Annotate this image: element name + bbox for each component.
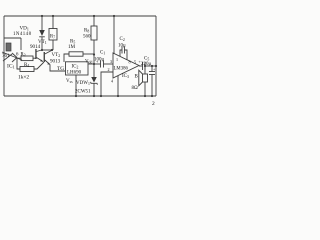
junction ground zener [93, 95, 95, 97]
svg-text:R8: R8 [84, 29, 89, 34]
wire left frame [3, 16, 5, 96]
junction ground Vss [75, 95, 77, 97]
svg-text:3: 3 [110, 59, 112, 64]
junction R5 R8 [93, 53, 95, 55]
svg-text:100μ: 100μ [94, 58, 105, 63]
wire IC1 output down to R4 [17, 58, 20, 69]
svg-text:R4: R4 [24, 63, 29, 68]
wire IC2 Vss to ground [75, 75, 77, 96]
svg-text:R7: R7 [50, 35, 55, 40]
svg-text:LM386: LM386 [114, 66, 129, 71]
wire supply node down [93, 54, 95, 64]
zener diode VDW1 [91, 64, 98, 96]
svg-text:9013: 9013 [50, 58, 61, 64]
junction top rail at VD1 [41, 15, 43, 17]
wire right frame [155, 16, 157, 96]
junction top rail at R7 [52, 15, 54, 17]
sensor IC1 amp apex [12, 53, 17, 62]
resistor R8 [91, 16, 97, 54]
svg-text:560: 560 [83, 35, 91, 40]
svg-text:TG: TG [57, 66, 64, 72]
wire R4 to VT2 [34, 62, 44, 69]
svg-text:VDW1: VDW1 [76, 81, 90, 86]
junction ground pin4 [117, 95, 119, 97]
svg-text:VT2: VT2 [52, 52, 61, 58]
IC2 music chip box [66, 62, 89, 75]
sensor IC1 light arrow [3, 54, 12, 61]
svg-text:9014: 9014 [30, 44, 41, 50]
wire bottom ground rail [4, 95, 156, 97]
sensor IC1 slant lead [2, 52, 22, 60]
junction top rail at R8 [93, 15, 95, 17]
svg-text:C1: C1 [100, 51, 105, 56]
svg-text:LH690: LH690 [67, 71, 82, 76]
junction R7 bottom [51, 49, 53, 51]
wire collector node [41, 49, 52, 51]
junction speaker tap [144, 65, 146, 67]
junction ground pin2 [100, 95, 102, 97]
svg-text:1k×2: 1k×2 [18, 75, 29, 81]
junction top rail at pin6 [113, 15, 115, 17]
speaker B [139, 66, 148, 96]
svg-text:10μ: 10μ [118, 44, 126, 49]
svg-text:IC3: IC3 [122, 74, 129, 79]
resistor R7 [49, 16, 57, 50]
capacitor C1 [94, 59, 113, 68]
diode VD1 [39, 16, 45, 50]
wire top supply rail [4, 15, 156, 17]
resistor R4 [20, 67, 34, 72]
sensor IC1 envelope box [4, 38, 21, 50]
svg-text:220μ: 220μ [141, 62, 152, 67]
junction output node [93, 63, 95, 65]
wire R3 to VT1 base [33, 57, 36, 59]
svg-text:2CW51: 2CW51 [75, 90, 91, 95]
junction ground speaker [144, 95, 146, 97]
wire pin4 to ground [117, 76, 119, 96]
svg-text:1N4148: 1N4148 [13, 32, 32, 37]
svg-text:6: 6 [16, 53, 19, 58]
svg-text:R3: R3 [21, 53, 26, 58]
svg-text:8: 8 [129, 60, 131, 65]
capacitor C6 [149, 66, 156, 96]
svg-text:VD1: VD1 [20, 26, 29, 32]
junction ground C6 [151, 95, 153, 97]
junction VD1 bottom [41, 49, 43, 51]
wire pin6 supply [113, 16, 115, 54]
svg-text:1M: 1M [68, 44, 76, 50]
sensor IC1 inner element [6, 43, 11, 51]
svg-text:IC1: IC1 [7, 64, 15, 70]
svg-text:4: 4 [111, 79, 113, 84]
wire VT2 emitter to TG [50, 65, 65, 72]
svg-text:2: 2 [108, 67, 110, 72]
node IC1 output [17, 57, 21, 59]
svg-text:1: 1 [116, 57, 118, 62]
svg-text:C5: C5 [144, 57, 149, 62]
svg-text:5: 5 [134, 60, 136, 65]
junction frame output [155, 65, 157, 67]
transistor VT2 [44, 51, 52, 65]
svg-text:Vss: Vss [66, 79, 73, 84]
capacitor C2 [120, 47, 127, 60]
wire IC2 output pin [88, 63, 94, 65]
resistor R5 [64, 52, 94, 62]
svg-text:C2: C2 [120, 37, 125, 42]
op-amp IC3 LM386 [113, 53, 139, 78]
svg-text:IC2: IC2 [72, 65, 79, 70]
svg-text:B: B [135, 75, 139, 80]
capacitor C5 [139, 59, 157, 70]
resistor R3 [21, 56, 33, 61]
wire pin2 to ground [101, 72, 113, 96]
svg-text:8Ω: 8Ω [132, 86, 139, 91]
transistor VT1 [35, 49, 43, 62]
svg-text:761: 761 [2, 54, 10, 59]
junction C6 tap [151, 65, 153, 67]
svg-text:2: 2 [152, 101, 155, 107]
